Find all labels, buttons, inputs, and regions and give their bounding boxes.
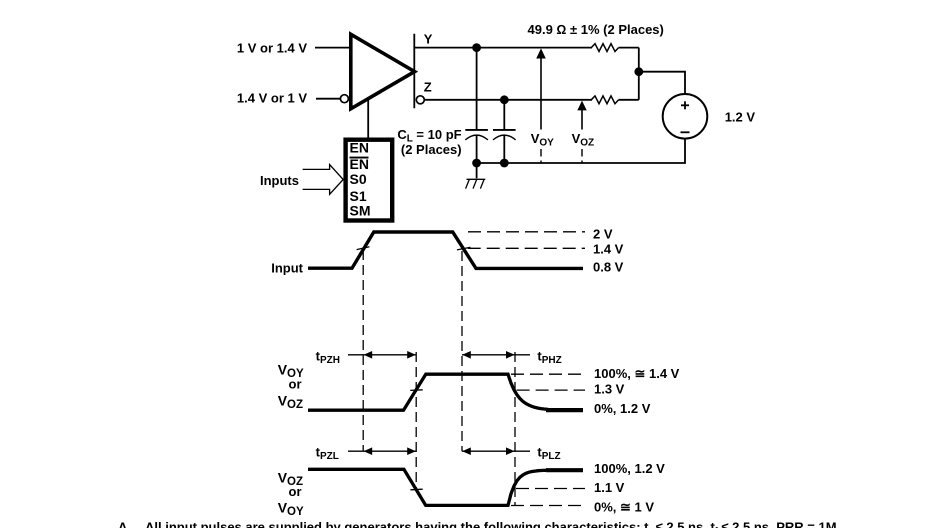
wire source bottom bbox=[477, 139, 685, 163]
dashed 0% 1V bbox=[511, 505, 585, 507]
svg-text:100%, ≅ 1.4 V: 100%, ≅ 1.4 V bbox=[594, 366, 680, 381]
svg-text:1.2 V: 1.2 V bbox=[725, 109, 756, 124]
wire R2 to node bbox=[619, 99, 639, 101]
svg-text:0%, ≅ 1 V: 0%, ≅ 1 V bbox=[594, 499, 654, 514]
svg-text:Y: Y bbox=[424, 32, 433, 47]
wire R1 to node bbox=[619, 47, 639, 49]
dashed vertical L1 bbox=[362, 250, 364, 451]
svg-text:or: or bbox=[289, 377, 302, 392]
svg-text:VOY: VOY bbox=[531, 131, 554, 149]
wire node to source bbox=[639, 72, 685, 95]
svg-text:100%, 1.2 V: 100%, 1.2 V bbox=[594, 461, 665, 476]
middle waveform VOY/VOZ bbox=[308, 374, 548, 410]
svg-text:S0: S0 bbox=[350, 171, 367, 187]
svg-text:All input pulses are supplied: All input pulses are supplied by generat… bbox=[145, 520, 840, 528]
svg-text:49.9 Ω ± 1% (2 Places): 49.9 Ω ± 1% (2 Places) bbox=[528, 22, 664, 37]
junction Y / C1 bbox=[472, 43, 481, 52]
junction C2 / rail bbox=[500, 159, 509, 168]
junction node bbox=[634, 67, 643, 76]
inputs open arrow bbox=[303, 165, 344, 195]
EN control box bbox=[346, 140, 393, 221]
tick input rise bbox=[357, 247, 370, 250]
dashed 2V bbox=[468, 231, 585, 233]
tick middle rise bbox=[410, 389, 423, 392]
wire Y bbox=[414, 47, 592, 49]
svg-text:A.: A. bbox=[118, 520, 131, 528]
dashed vertical L4 bbox=[514, 352, 516, 505]
output stub bbox=[413, 34, 415, 109]
tPHZ dimension row bbox=[462, 354, 530, 356]
voltage source V1 bbox=[663, 94, 708, 139]
svg-text:1.3 V: 1.3 V bbox=[594, 381, 625, 396]
junction C1 / rail bbox=[472, 159, 481, 168]
bubble Z bbox=[416, 96, 424, 104]
svg-text:Inputs: Inputs bbox=[260, 173, 299, 188]
svg-text:tPLZ: tPLZ bbox=[537, 445, 560, 463]
wire Z bbox=[424, 99, 592, 101]
probe VOZ arrow bbox=[577, 101, 586, 111]
probe VOY arrow bbox=[536, 48, 546, 58]
svg-text:2 V: 2 V bbox=[593, 226, 613, 241]
svg-text:0.8 V: 0.8 V bbox=[593, 260, 624, 275]
junction Z / C2 bbox=[500, 95, 509, 104]
wire input B bbox=[316, 98, 340, 100]
resistor R1 (49.9 ohm, Y line) bbox=[591, 44, 618, 52]
svg-text:tPZH: tPZH bbox=[316, 348, 340, 366]
wire node vertical bbox=[638, 48, 640, 100]
svg-text:EN: EN bbox=[350, 140, 369, 156]
control wire bbox=[367, 100, 369, 139]
wire input A bbox=[315, 47, 351, 49]
tick input fall bbox=[457, 247, 471, 250]
dashed vertical L3 bbox=[461, 251, 463, 451]
tPLZ dimension row bbox=[462, 450, 530, 452]
svg-text:tPHZ: tPHZ bbox=[537, 348, 561, 366]
svg-text:Z: Z bbox=[424, 79, 432, 94]
input waveform bbox=[308, 232, 583, 268]
svg-text:1.4 V: 1.4 V bbox=[593, 241, 624, 256]
bubble input B bbox=[340, 95, 348, 103]
svg-text:tPZL: tPZL bbox=[316, 445, 339, 463]
svg-text:SM: SM bbox=[350, 203, 371, 219]
svg-text:0%, 1.2 V: 0%, 1.2 V bbox=[594, 401, 651, 416]
dashed 1.4V bbox=[468, 247, 585, 249]
svg-text:Input: Input bbox=[271, 261, 303, 276]
svg-text:VOZ: VOZ bbox=[278, 393, 303, 411]
svg-text:EN: EN bbox=[350, 156, 369, 172]
svg-text:VOY: VOY bbox=[278, 500, 304, 518]
svg-text:1 V or 1.4 V: 1 V or 1.4 V bbox=[237, 41, 307, 56]
bottom waveform VOZ/VOY bbox=[308, 469, 548, 505]
svg-text:or: or bbox=[289, 484, 302, 499]
dashed 100% 1.4V bbox=[511, 373, 585, 375]
svg-text:1.4 V or 1 V: 1.4 V or 1 V bbox=[237, 91, 307, 106]
capacitor C2 bbox=[503, 100, 505, 129]
svg-text:(2 Places): (2 Places) bbox=[401, 142, 462, 157]
svg-text:1.1 V: 1.1 V bbox=[594, 480, 625, 495]
resistor R2 (49.9 ohm, Z line) bbox=[591, 96, 618, 104]
capacitor C1 bbox=[476, 48, 478, 129]
dashed 1.1V bbox=[516, 488, 585, 490]
ground bbox=[476, 163, 478, 178]
pin EN-bar bbox=[350, 157, 369, 159]
svg-text:VOZ: VOZ bbox=[572, 131, 595, 149]
dashed vertical L2 bbox=[415, 352, 417, 490]
op-amp U1 (3-state driver triangle) bbox=[351, 34, 415, 109]
dashed 1.3V bbox=[517, 389, 585, 391]
tick bottom fall bbox=[410, 488, 422, 491]
